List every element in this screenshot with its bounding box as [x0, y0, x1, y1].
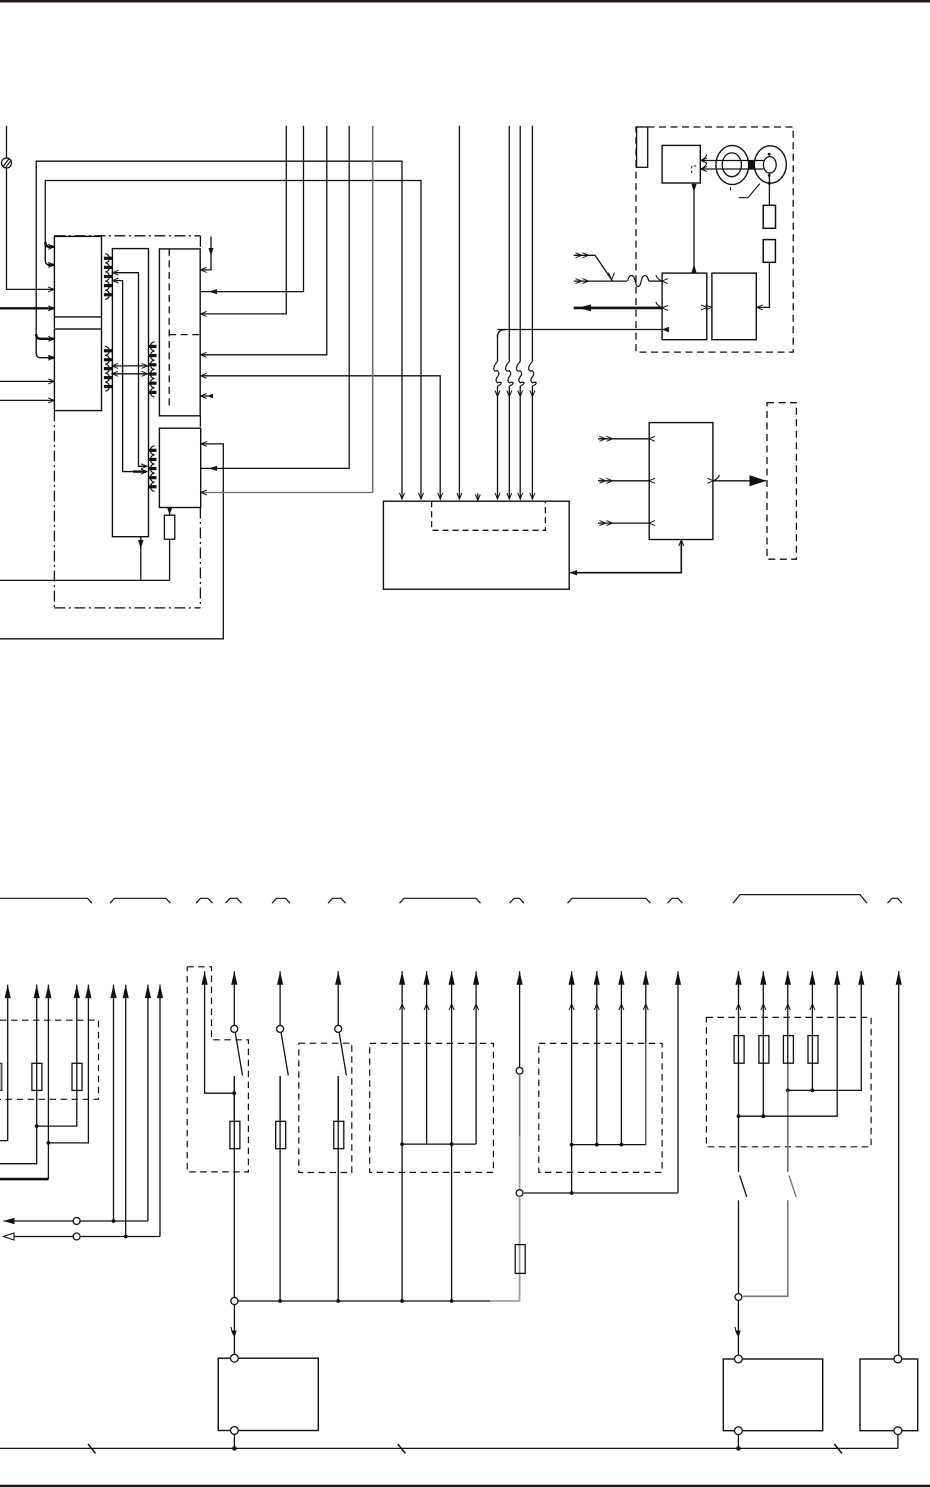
- feed wire N2: [45, 181, 421, 500]
- wire K7: [896, 971, 902, 1355]
- wire D1 to motor lower: [700, 163, 763, 172]
- wire N2 into box A1 pin2: [45, 246, 54, 267]
- wire N1 into box A2 pin1: [36, 334, 54, 341]
- page bottom bar: [0, 1485, 930, 1487]
- ground bus break 1: [88, 1444, 96, 1453]
- winding T1a on box A1: [104, 254, 112, 300]
- input wire S-d: [498, 327, 669, 333]
- arrowheads into main box top: [400, 493, 424, 499]
- wire joining A1 and A2: [101, 317, 103, 329]
- winding T2a on box A4: [149, 342, 157, 397]
- wire box A4 pin b to V303: [201, 126, 304, 294]
- ground bus break 3: [834, 1444, 842, 1453]
- motor P2 with brushes: [754, 146, 786, 185]
- wire D1 to box B1 (bidirectional): [692, 183, 697, 273]
- module M1 dash-dot border left: [53, 317, 55, 608]
- switch SW3 box dashed: [299, 1043, 352, 1172]
- box B2: [712, 273, 756, 340]
- box A5 (lower relay): [159, 428, 200, 507]
- tap wire T1a to vertical V122: [113, 278, 123, 366]
- conductor M-gray with connectors and fuse: [515, 971, 525, 1301]
- wire K3 (gray) with fuse+switch: [742, 971, 796, 1296]
- wire K1 with fuse+switch: [734, 971, 747, 1355]
- relay box RB1 dashed: [370, 1043, 494, 1172]
- wire K4 with fuse: [808, 971, 818, 1092]
- indicator G1 (circle symbol): [2, 158, 12, 168]
- ground bus: [0, 1447, 898, 1449]
- page top bar: [0, 0, 930, 3]
- input wire S-b with choke: [574, 275, 668, 287]
- output wire S-c (thick): [574, 302, 668, 312]
- wire from G1 top: [6, 126, 8, 158]
- fuse box FB2 dashed: [706, 1017, 871, 1146]
- wire I4 (gray): [643, 971, 649, 1144]
- wire box A4 pin d to V326: [201, 126, 327, 357]
- switch SW2 with fuse: [276, 971, 289, 1303]
- stub arrow box A4 pin f: [201, 394, 213, 399]
- wire G1 to box A1: [7, 168, 55, 292]
- unit box E2: [723, 1355, 822, 1435]
- wire box A5 pin c to V372 (gray): [201, 126, 373, 495]
- tap wire T1b to T2a lower: [112, 371, 148, 376]
- motor coupling square: [749, 161, 755, 169]
- connector housing row 11: [733, 895, 867, 904]
- wire F2 with fuse: [0, 985, 42, 1164]
- connector housing row 8: [510, 898, 525, 903]
- module M1 dash-dot border right: [199, 236, 201, 608]
- resistor R1 lead+body: [164, 507, 174, 580]
- input wire C1-1: [598, 436, 655, 441]
- bus wire W1144b: [572, 1144, 646, 1146]
- wire box A5 pin b to V349: [201, 126, 349, 471]
- wire F3 (thick out): [0, 985, 52, 1180]
- wire F5: [48, 985, 91, 1143]
- wire I1: [569, 971, 575, 1193]
- tap wire T1b to T2a upper: [112, 363, 148, 368]
- thick wire into box A1 pin4: [0, 306, 54, 311]
- unit box E3: [860, 1355, 918, 1435]
- connector housing row 1: [0, 898, 92, 903]
- ground bus break 2: [398, 1444, 406, 1453]
- wire F8: [145, 985, 151, 1221]
- wire I3: [618, 971, 624, 1146]
- tall box A3 bottom lead: [138, 537, 144, 581]
- winding T2b on box A5: [149, 446, 157, 492]
- connector housing row 10: [668, 898, 683, 903]
- conductor Q3 with flex symbol: [516, 126, 524, 500]
- junction box J1 dashed (stepped): [187, 967, 248, 1172]
- wire N1 into box A2 pin2: [36, 338, 54, 360]
- wire H2: [424, 971, 430, 1144]
- pulley circle P1: [716, 145, 749, 190]
- wire H1: [399, 971, 405, 1303]
- bus vertical V459: [457, 126, 462, 500]
- stub arrow main box top pin: [475, 494, 480, 501]
- box A4 dashed divider: [169, 249, 200, 409]
- connector housing row 12: [888, 898, 903, 903]
- edge fuse (cut off): [0, 1063, 2, 1090]
- module M1 dash-dot border bottom: [54, 607, 200, 609]
- connector housing row 2: [110, 898, 171, 903]
- tap wire T1a to vertical V138: [113, 270, 139, 374]
- input wire S-a with branch: [574, 253, 615, 281]
- wire R3 to box B2: [757, 262, 770, 310]
- connector housing row 3: [196, 898, 213, 903]
- output wire W1221 with connector: [4, 1218, 148, 1225]
- control box D1: [662, 145, 700, 183]
- wire box A4 pin c to V286: [201, 126, 287, 317]
- wire E2 to ground: [736, 1435, 741, 1451]
- bus wire W1144a: [402, 1143, 476, 1145]
- arrow B1 to B2: [701, 305, 712, 310]
- wire I5: [675, 971, 681, 1193]
- wire motor P2 to resistor R2: [768, 173, 770, 205]
- resistor R2: [763, 205, 775, 228]
- unit box E1: [218, 1354, 318, 1434]
- wire F6: [110, 985, 116, 1223]
- winding T1b on box A2: [104, 346, 112, 391]
- wire box A5 pin a: [0, 441, 223, 638]
- wire E3 to ground: [897, 1435, 899, 1448]
- box U1 inner dashed section: [432, 501, 546, 530]
- tap vertical V138 to winding T2b: [139, 374, 148, 469]
- resistor R3: [763, 240, 775, 263]
- module M2 dashed border: [636, 127, 793, 352]
- input wire C1-3: [598, 521, 655, 526]
- connector tab on module M2: [637, 127, 648, 167]
- wire N2 into box A1 pin1: [45, 242, 54, 249]
- switch SW3 with fuse: [334, 971, 347, 1303]
- wire G-a: [202, 971, 237, 1095]
- wire I2: [594, 971, 600, 1146]
- wire K5: [739, 971, 841, 1118]
- output wire C1 to connector K1: [708, 475, 767, 487]
- connector K1 dashed: [767, 403, 796, 560]
- wire F4 with fuse: [37, 985, 82, 1127]
- output wire W1236 with connector: [4, 1233, 161, 1240]
- relay box RB2 dashed: [539, 1043, 662, 1172]
- wire E1 to ground: [232, 1435, 237, 1451]
- fuse box FB1 dashed: [0, 1020, 99, 1099]
- arrow stub into box A4 pin a: [201, 237, 214, 273]
- connector housing row 7: [400, 898, 481, 903]
- wire F9: [157, 985, 163, 1237]
- connector housing row 5: [272, 898, 290, 903]
- main control box U1: [383, 501, 569, 589]
- box C1 (interface): [649, 423, 713, 540]
- wire into box A2 pin3: [0, 379, 54, 384]
- ground return wire W580: [0, 579, 170, 581]
- bus wire W1193: [524, 1191, 678, 1195]
- box A2 (regulator section): [54, 329, 101, 411]
- wire H4: [473, 971, 479, 1144]
- wire H3: [449, 971, 455, 1303]
- conductor Q4 with flex symbol: [529, 126, 537, 500]
- wire box A4 pin e to V440: [201, 373, 443, 499]
- tall box A3: [112, 249, 148, 537]
- connector housing row 9: [568, 898, 651, 903]
- tap vertical V122 to winding T2b: [123, 366, 147, 474]
- relay box A4: [159, 249, 200, 416]
- input wire C1-2: [598, 478, 655, 483]
- wire K6: [788, 971, 865, 1090]
- connector housing row 4: [226, 898, 242, 903]
- feed wire N1: [36, 161, 402, 499]
- module M1 dash-dot border top: [54, 235, 200, 237]
- leader line: [739, 184, 760, 198]
- wire K2 with fuse: [759, 971, 769, 1118]
- switch SW1 with fuse: [230, 971, 243, 1354]
- box B1: [662, 273, 707, 340]
- wire F7: [123, 985, 129, 1239]
- wire into box A2 pin4: [0, 398, 54, 403]
- wire B1 bottom to U1: [570, 540, 684, 576]
- wire F1: [0, 985, 11, 1141]
- connector housing row 6: [328, 898, 346, 903]
- box D1 inner dashed mark: [692, 166, 697, 173]
- conductor Q2 with flex symbol: [506, 126, 514, 500]
- wire D1 to motor upper: [700, 155, 763, 164]
- box A1 (regulator section): [54, 236, 101, 317]
- conductor Q1 (from module wire) with flex symbol: [494, 330, 505, 500]
- bus wire W1301: [238, 1300, 520, 1302]
